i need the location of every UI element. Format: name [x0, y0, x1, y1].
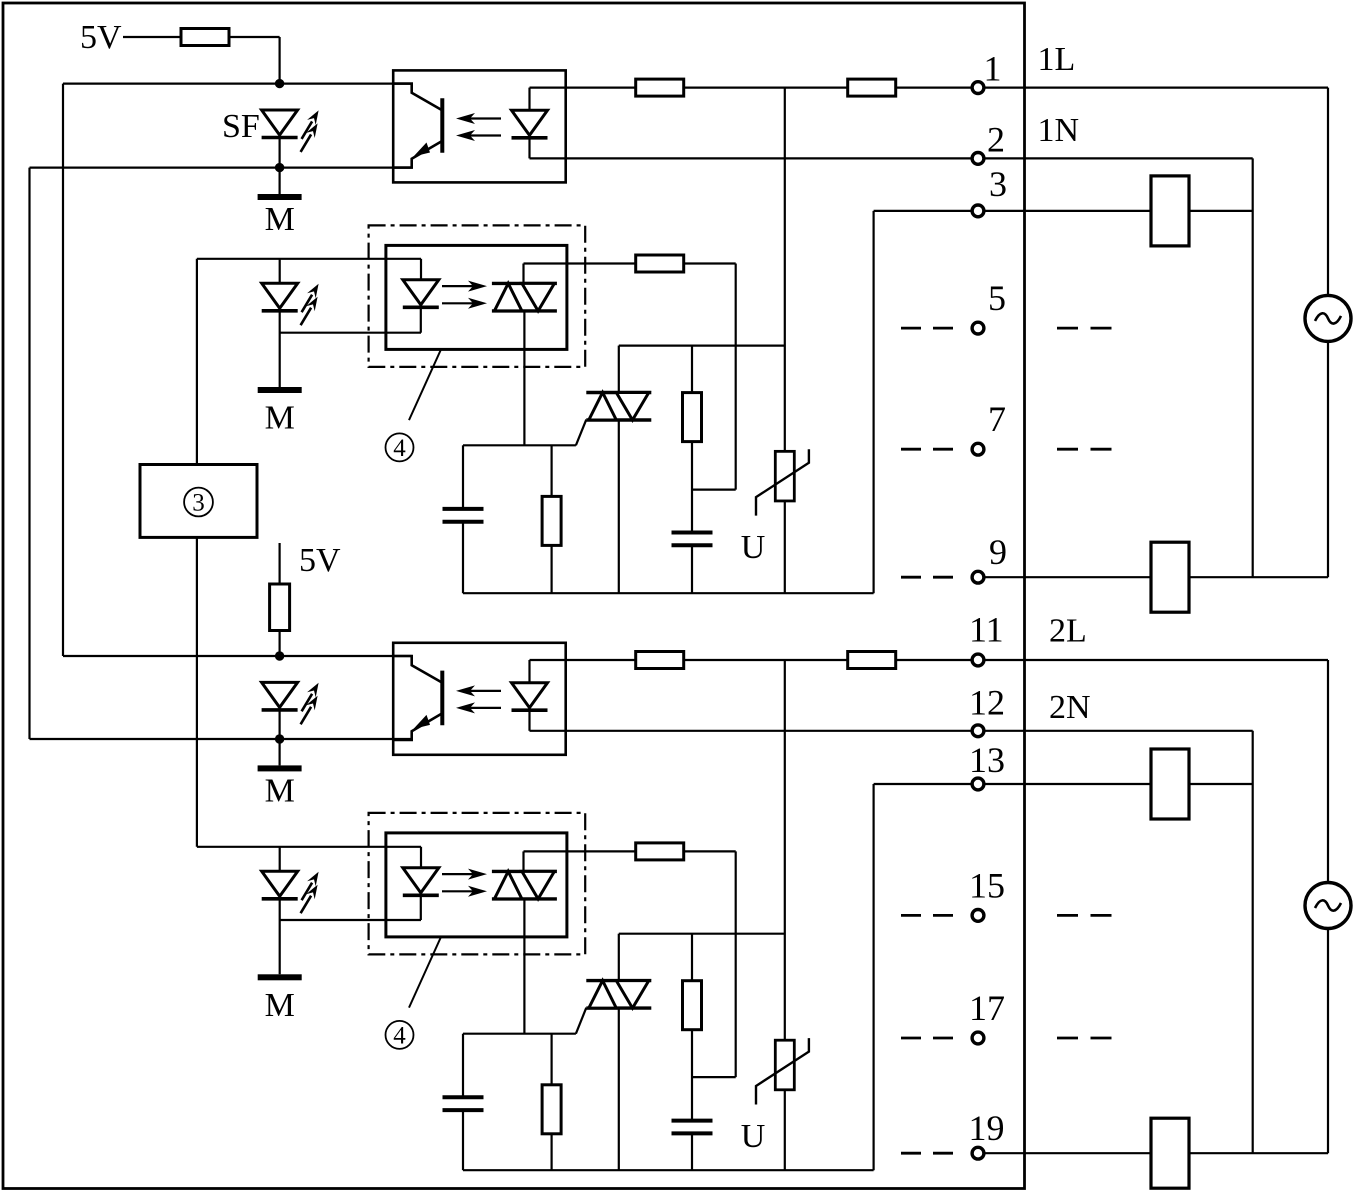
node B1 [275, 163, 284, 172]
wire AC bus lower [1327, 929, 1329, 1154]
svg-text:2N: 2N [1049, 689, 1091, 726]
wire internal return rail ch1 [463, 592, 874, 594]
wire terminal 19 to load [985, 1152, 1151, 1154]
wire bus (node A1 to node A2) [62, 84, 64, 656]
node B2 [275, 734, 284, 743]
wire capacitor to rail [462, 1110, 464, 1170]
wire LED anode [279, 259, 281, 284]
wire snubber R to C [691, 1030, 693, 1121]
resistor (gate series, ch1) [636, 255, 684, 272]
wire varistor net from terminal row [784, 660, 786, 1040]
wire varistor net from terminal row [784, 88, 786, 452]
wire between input resistors [684, 659, 849, 661]
wire terminal 9 to load [985, 576, 1151, 578]
optocoupler U2 box [393, 643, 566, 755]
wire LED cathode to ground [279, 311, 281, 387]
wire varistor to rail [784, 1090, 786, 1170]
terminal 2 [972, 153, 984, 165]
wire to gate series resistor [524, 262, 637, 264]
resistor (gate-MT1, ch1) [542, 496, 561, 545]
power triac (ch2) [586, 981, 651, 1009]
wire snubber C to rail [691, 1133, 693, 1170]
wire LED cathode to ground [279, 899, 281, 975]
svg-text:2: 2 [987, 120, 1005, 160]
wire opto LED cathode lead [528, 138, 530, 158]
LED emission arrows [301, 872, 319, 914]
svg-text:17: 17 [969, 988, 1005, 1028]
wire opto LED cathode to terminal 2 [530, 157, 971, 159]
terminal 15 [972, 910, 984, 922]
wire opto-triac LED anode lead [420, 259, 422, 280]
opto-triac isolator unit 4 dash-dot boundary [369, 813, 586, 955]
resistor (input series 2, ch1) [848, 79, 896, 96]
svg-text:1N: 1N [1038, 112, 1080, 149]
svg-text:7: 7 [988, 399, 1006, 439]
terminal 9 [972, 571, 984, 583]
wire gate node [463, 1033, 576, 1035]
wire opto LED cathode lead [528, 710, 530, 730]
wire opto LED to resistor [530, 86, 637, 88]
wire opto LED to resistor [530, 659, 637, 661]
wire R1 to corner [229, 36, 280, 38]
dashed wires inside terminal 9 [901, 576, 953, 579]
svg-text:13: 13 [969, 740, 1005, 780]
svg-text:U: U [741, 529, 766, 566]
dashed wires outside terminal 17 [1057, 1037, 1112, 1040]
input LED of opto-triac U3 [403, 280, 439, 308]
wire terminal 13 into module [874, 783, 971, 785]
load (terminal 3) [1151, 176, 1189, 246]
wire triac MT2 [618, 934, 620, 981]
wire between input resistors [684, 86, 849, 88]
wire box3 down to stage-2 row ch2 [196, 537, 198, 846]
wire photo-triac MT2 up [522, 851, 524, 871]
light arrow 2 [442, 298, 487, 309]
wire node B1 row (to optocoupler emitter) [30, 167, 412, 169]
phototransistor of U2 [392, 656, 442, 740]
svg-text:M: M [265, 201, 295, 238]
LED SF emission arrows [301, 683, 319, 725]
AC source (ch1) [1305, 295, 1351, 341]
capacitor (gate filter, ch1) [443, 509, 484, 522]
wire resistor to corner [684, 262, 736, 264]
wire AC bus lower [1327, 341, 1329, 577]
wire snubber midpoint jog [692, 489, 736, 491]
capacitor (gate filter, ch2) [443, 1097, 484, 1110]
dashed wires inside terminal 7 [901, 448, 953, 451]
wire node A2 row (to optocoupler collector) [63, 655, 412, 657]
wire terminal 3 into module [874, 210, 971, 212]
svg-text:1L: 1L [1038, 41, 1076, 78]
ground M (ch1 stage 2) [258, 387, 302, 393]
wire to ground [279, 168, 281, 194]
wire opto-triac LED anode lead [420, 847, 422, 868]
phototransistor of U1 [392, 84, 442, 168]
terminal 13 [972, 778, 984, 790]
opto-triac isolator unit 4 dash-dot boundary [369, 225, 586, 367]
wire node A1 row (to optocoupler collector) [63, 82, 412, 84]
node A1 [275, 79, 284, 88]
wire load to AC return rail [1189, 576, 1328, 578]
wire opto-triac LED cathode lead [420, 896, 422, 921]
wire terminal 13 to load [985, 783, 1151, 785]
status LED SF (ch2) [262, 682, 298, 710]
dashed wires inside terminal 5 [901, 327, 953, 330]
wire snubber R to C [691, 442, 693, 533]
LED SF emission arrows [301, 110, 319, 151]
input LED of U1 [512, 110, 548, 138]
wire load to neutral bus [1189, 783, 1253, 785]
wire opto LED cathode to terminal 12 [530, 730, 971, 732]
resistor (gate-MT1, ch2) [542, 1085, 561, 1134]
resistor R5 (5V series ch2) [270, 584, 290, 631]
wire photo-triac MT1 down to gate node [523, 311, 525, 445]
wire resistor to terminal [896, 659, 971, 661]
light arrow 1 [442, 869, 487, 880]
wire LED cathode to node B [279, 710, 281, 739]
terminal 19 [972, 1147, 984, 1159]
wire neutral bus down [1252, 158, 1254, 577]
svg-text:12: 12 [969, 683, 1005, 723]
wire row B to opto-triac LED cathode [280, 919, 421, 921]
wire neutral bus down [1252, 731, 1254, 1153]
terminal 1 [972, 82, 984, 94]
wire triac MT1 to rail [618, 1008, 620, 1170]
wire terminal 2 to neutral bus [985, 157, 1252, 159]
terminal 12 [972, 725, 984, 737]
wire load to AC return rail [1189, 1152, 1328, 1154]
wire down to node A1 [279, 37, 281, 84]
status LED SF (ch1) [262, 110, 298, 138]
input LED of U2 [512, 683, 548, 711]
light arrow 1 [442, 281, 487, 292]
wire bus (node B1 to node B2) [28, 168, 30, 739]
wire LED anode [279, 847, 281, 872]
wire MT2 node to varistor net [619, 345, 785, 347]
dashed wires inside terminal 15 [901, 914, 953, 917]
wire AC bus upper [1327, 88, 1329, 296]
load (terminal 9) [1151, 542, 1189, 612]
wire to ground [279, 739, 281, 765]
wire row B to opto-triac LED cathode [280, 332, 421, 334]
svg-text:3: 3 [989, 164, 1007, 204]
svg-text:3: 3 [192, 490, 205, 517]
wire MT2 node to varistor net [619, 933, 785, 935]
pointer line to label 4 [409, 937, 441, 1008]
resistor (snubber, ch2) [683, 981, 702, 1030]
wire gate node to capacitor [462, 445, 464, 509]
wire LED cathode to node B [279, 138, 281, 168]
wire gate node [463, 444, 576, 446]
wire snubber C to rail [691, 545, 693, 593]
wire internal return rail ch2 [463, 1169, 874, 1171]
resistor R1 (5V series) [181, 29, 229, 46]
terminal 17 [972, 1032, 984, 1044]
svg-text:M: M [265, 772, 295, 809]
wire triac MT1 to rail [618, 420, 620, 593]
wire gate node to capacitor [462, 1034, 464, 1098]
pointer line to label 4 [409, 349, 441, 420]
wire terminal 11 to AC source [985, 659, 1328, 661]
label 4 (opto-triac) [386, 1021, 414, 1050]
label 4 (opto-triac) [386, 433, 414, 462]
wire opto-triac LED cathode lead [420, 308, 422, 333]
wire opto LED anode lead [528, 660, 530, 683]
dashed wires inside terminal 19 [901, 1152, 953, 1155]
wire 5V stub ch2 [279, 543, 281, 584]
svg-text:1: 1 [984, 48, 1002, 88]
wire resistor to corner [684, 850, 736, 852]
dashed wires outside terminal 7 [1057, 448, 1112, 451]
terminal 5 [972, 322, 984, 334]
wire down to internal rail [872, 211, 874, 593]
resistor (snubber, ch1) [683, 393, 702, 442]
resistor (input series 1, ch2) [636, 652, 684, 669]
wire AC bus upper [1327, 660, 1329, 883]
wire down to snubber junction [735, 851, 737, 1077]
wire photo-triac MT2 up [522, 264, 524, 284]
light arrow 1 [456, 685, 501, 696]
input LED of opto-triac U4 [403, 868, 439, 896]
svg-text:15: 15 [969, 865, 1005, 905]
dashed wires inside terminal 17 [901, 1037, 953, 1040]
light arrow 2 [442, 886, 487, 897]
optocoupler U1 box [393, 70, 566, 182]
wire box3 to stage-2 row [196, 259, 198, 465]
terminal 11 [972, 654, 984, 666]
ground M (ch2 input) [258, 765, 302, 771]
svg-text:5V: 5V [299, 542, 341, 579]
wire gate node to resistor [550, 445, 552, 497]
wire to gate series resistor [524, 850, 637, 852]
AC source (ch2) [1305, 883, 1351, 929]
resistor (gate series, ch2) [636, 843, 684, 860]
svg-text:4: 4 [393, 1022, 406, 1049]
wire gate diagonal to triac gate [576, 420, 586, 446]
wire capacitor to rail [462, 522, 464, 594]
svg-text:2L: 2L [1049, 612, 1087, 649]
light arrow 2 [456, 130, 501, 141]
wire load to neutral bus [1189, 210, 1253, 212]
opto-triac U3 box [386, 245, 567, 349]
svg-text:5V: 5V [80, 19, 122, 56]
svg-text:9: 9 [989, 532, 1007, 572]
svg-text:5: 5 [988, 278, 1006, 318]
wire terminal 12 to neutral bus [985, 730, 1252, 732]
svg-text:M: M [265, 400, 295, 437]
wire snubber midpoint jog [692, 1076, 736, 1078]
wire 5V to resistor R1 [123, 36, 181, 38]
wire resistor to rail [550, 545, 552, 593]
wire node B2 row (to optocoupler emitter) [30, 738, 412, 740]
wire drive row A to opto-triac LED [197, 258, 421, 260]
wire down to internal rail [872, 784, 874, 1170]
wire gate diagonal to triac gate [576, 1008, 586, 1034]
resistor (input series 2, ch2) [848, 652, 896, 669]
power triac (ch1) [586, 393, 651, 421]
terminal 7 [972, 443, 984, 455]
wire opto LED anode lead [528, 88, 530, 111]
dashed wires outside terminal 5 [1057, 327, 1112, 330]
label 3 (internal circuit) [184, 488, 213, 517]
ground M (ch2 stage 2) [258, 974, 302, 980]
wire resistor to rail [550, 1134, 552, 1171]
node A2 [275, 651, 284, 660]
opto-triac U4 box [386, 833, 567, 937]
resistor (input series 1, ch1) [636, 79, 684, 96]
terminal 3 [972, 205, 984, 217]
svg-text:M: M [265, 987, 295, 1024]
svg-text:SF: SF [222, 108, 260, 145]
wire terminal 1 to AC source [985, 86, 1328, 88]
load (terminal 19) [1151, 1118, 1189, 1188]
wire MT2 node to snubber resistor [691, 346, 693, 393]
light arrow 2 [456, 702, 501, 713]
svg-text:19: 19 [969, 1108, 1005, 1148]
wire MT2 node to snubber resistor [691, 934, 693, 981]
wire varistor to rail [784, 501, 786, 593]
photo-triac of U4 [492, 871, 557, 899]
varistor U (ch2) [756, 1038, 809, 1104]
photo-triac of U3 [492, 283, 557, 311]
CPU interface block 3 [140, 465, 257, 538]
LED emission arrows [301, 284, 319, 326]
capacitor (snubber, ch1) [672, 533, 713, 546]
wire drive row A to opto-triac LED [197, 846, 421, 848]
wire photo-triac MT1 down to gate node [523, 899, 525, 1034]
status LED (ch2 stage 2) [262, 871, 298, 899]
svg-text:4: 4 [393, 435, 406, 462]
load (terminal 13) [1151, 749, 1189, 819]
varistor U (ch1) [756, 449, 809, 515]
status LED (ch1 stage 2) [262, 283, 298, 311]
wire gate node to resistor [550, 1034, 552, 1086]
module enclosure border [3, 3, 1025, 1189]
wire R5 to node A2 [279, 631, 281, 657]
dashed wires outside terminal 15 [1057, 914, 1112, 917]
svg-text:11: 11 [969, 609, 1004, 649]
wire resistor to terminal [896, 86, 971, 88]
light arrow 1 [456, 113, 501, 124]
capacitor (snubber, ch2) [672, 1121, 713, 1134]
wire terminal 3 to load [985, 210, 1151, 212]
svg-text:U: U [741, 1118, 766, 1155]
ground M (ch1 input) [258, 194, 302, 200]
wire down to snubber junction [735, 264, 737, 490]
wire triac MT2 [618, 346, 620, 393]
